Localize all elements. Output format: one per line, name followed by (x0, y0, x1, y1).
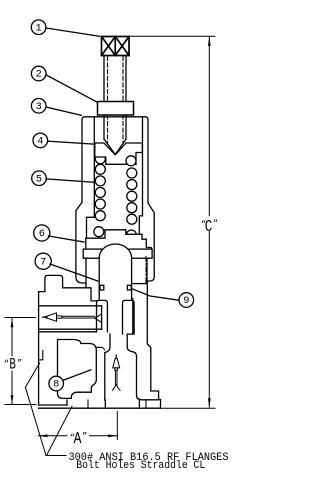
svg-text:8: 8 (53, 379, 59, 391)
svg-text:1: 1 (36, 22, 42, 34)
svg-text:7: 7 (40, 256, 46, 268)
body outline (39, 275, 161, 408)
svg-text:5: 5 (36, 173, 42, 185)
hidden line right lobe (145, 257, 147, 284)
dimension C extension bottom (161, 407, 216, 409)
body cavity window (58, 340, 97, 399)
seat block right (123, 300, 135, 334)
guide pin right (item 9 target) (127, 285, 131, 290)
bonnet outer shell (76, 117, 154, 288)
stem (adjusting bolt) (104, 56, 126, 102)
balloon 9 (132, 289, 193, 308)
balloon 2 (31, 66, 97, 102)
dimension A extension right (116, 412, 118, 440)
bonnet inner walls (87, 118, 143, 239)
guide pin left (100, 285, 104, 290)
bonnet bottom plate (83, 249, 152, 258)
svg-text:3: 3 (36, 101, 42, 113)
inlet flow arrow (112, 355, 120, 390)
svg-text:B: B (9, 355, 16, 373)
balloon 4 (33, 133, 95, 148)
dimension A line (38, 434, 117, 437)
right lobe pocket (127, 298, 133, 334)
svg-text:”: ” (82, 431, 87, 441)
lower spring washer (86, 230, 151, 249)
balloon 5 (32, 171, 95, 186)
dimension C line (208, 37, 211, 408)
dimension B line (11, 318, 14, 404)
svg-text:2: 2 (36, 69, 42, 81)
svg-text:Bolt Holes Straddle CL: Bolt Holes Straddle CL (76, 460, 205, 472)
outlet flow arrow (43, 313, 102, 322)
dimension B extension top (5, 317, 36, 319)
spring coils (94, 154, 137, 240)
svg-text:6: 6 (39, 228, 45, 240)
disc holder dome (99, 244, 131, 300)
balloon 1 (31, 20, 99, 36)
svg-text:”: ” (17, 359, 22, 369)
svg-text:A: A (74, 430, 82, 449)
cap C1 (102, 37, 130, 56)
balloon 6 (34, 225, 84, 242)
svg-text:”: ” (213, 219, 218, 229)
svg-text:4: 4 (37, 136, 43, 148)
balloon 8 (49, 370, 91, 391)
balloon 3 (31, 99, 81, 116)
adjusting screw tip (104, 115, 126, 155)
note leader (25, 363, 72, 455)
outlet duct (39, 306, 102, 332)
upper spring button (95, 143, 143, 164)
svg-text:C: C (205, 218, 213, 237)
dimension B extension bottom (5, 404, 36, 406)
nozzle bore walls (105, 334, 159, 400)
balloon 7 (35, 253, 98, 281)
svg-text:“: “ (4, 359, 9, 369)
svg-text:9: 9 (183, 295, 189, 307)
lock nut (98, 102, 134, 116)
seat block left (97, 300, 108, 331)
bottom flange (39, 400, 161, 408)
dimension C extension top (129, 35, 215, 37)
